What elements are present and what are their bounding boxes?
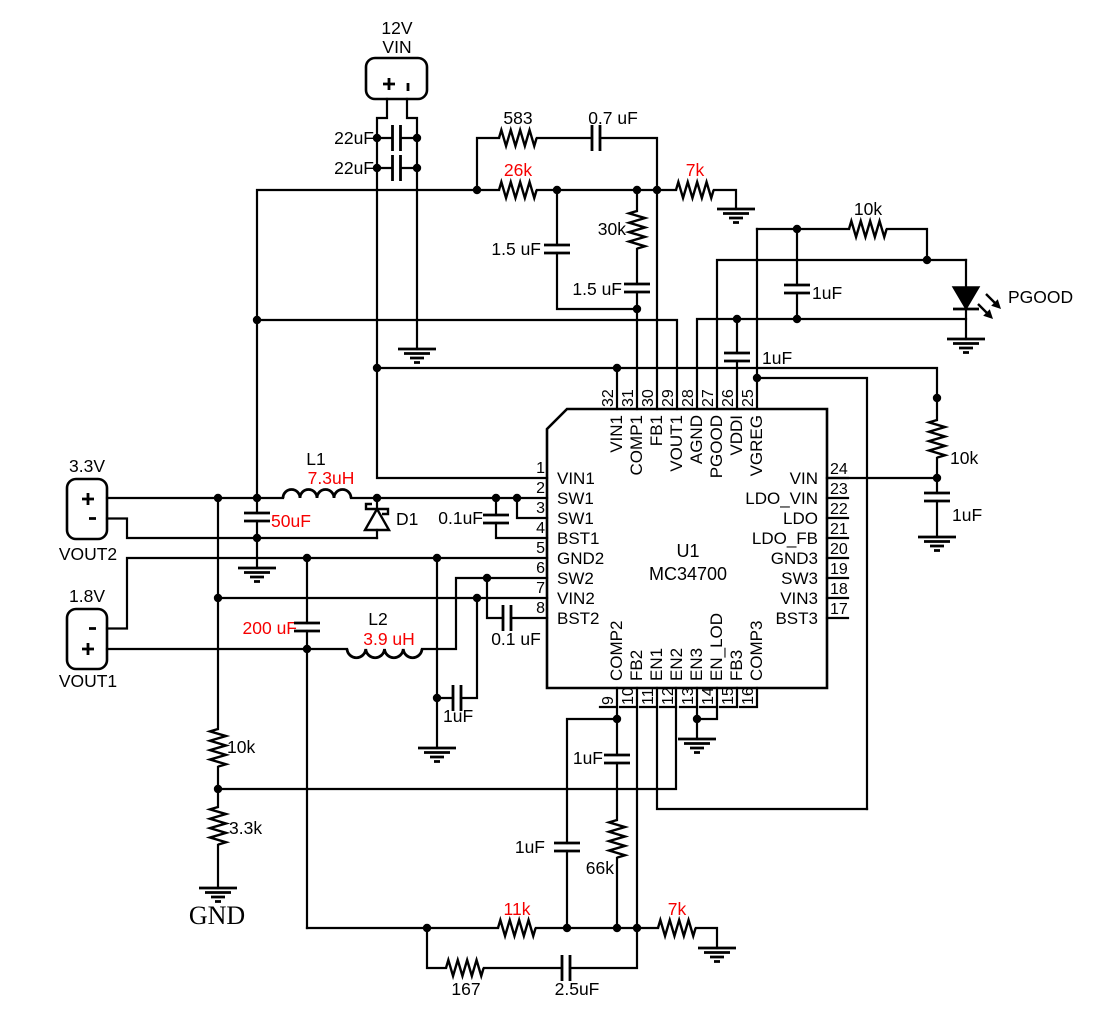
- svg-text:FB2: FB2: [627, 650, 646, 681]
- ground (EN3): [678, 739, 716, 753]
- svg-text:3.3k: 3.3k: [229, 818, 262, 838]
- svg-text:7.3uH: 7.3uH: [308, 468, 355, 488]
- svg-text:27: 27: [700, 389, 717, 407]
- svg-text:29: 29: [660, 389, 677, 407]
- svg-text:26: 26: [720, 389, 737, 407]
- svg-text:VIN: VIN: [790, 469, 818, 488]
- ground (7k top): [717, 209, 755, 223]
- svg-text:L2: L2: [368, 609, 387, 629]
- svg-text:LDO: LDO: [783, 509, 818, 528]
- svg-text:GND: GND: [189, 901, 245, 930]
- svg-text:24: 24: [830, 461, 848, 478]
- svg-text:11: 11: [640, 688, 657, 705]
- svg-text:18: 18: [830, 581, 848, 598]
- svg-text:U1: U1: [676, 541, 699, 561]
- svg-text:22uF: 22uF: [334, 158, 374, 178]
- wire 26k to FB1 node: [537, 189, 657, 191]
- svg-text:23: 23: [830, 481, 848, 498]
- ground (7k bottom): [698, 948, 736, 962]
- svg-text:7k: 7k: [668, 899, 687, 919]
- svg-text:26k: 26k: [504, 160, 532, 180]
- svg-text:VOUT1: VOUT1: [667, 415, 686, 472]
- ground (VIN 1uF): [918, 537, 956, 551]
- wire SW1 rail (VOUT2+): [107, 497, 547, 499]
- svg-text:1.5 uF: 1.5 uF: [572, 279, 622, 299]
- pin 23 number and stub: [827, 497, 848, 499]
- svg-text:PGOOD: PGOOD: [1008, 287, 1073, 307]
- svg-text:1.8V: 1.8V: [69, 586, 105, 606]
- wire VIN1 rail to pin 32 and 10k: [377, 368, 937, 398]
- svg-text:31: 31: [620, 389, 637, 407]
- svg-text:1uF: 1uF: [515, 837, 545, 857]
- svg-text:VIN2: VIN2: [557, 589, 595, 608]
- svg-text:EN1: EN1: [647, 648, 666, 681]
- svg-text:VOUT2: VOUT2: [59, 544, 117, 564]
- wire AGND pin 28 column: [697, 319, 966, 409]
- voltage source VOUT1 1.8V: [67, 609, 107, 669]
- svg-text:COMP3: COMP3: [747, 621, 766, 681]
- wire FB1 pin 30 column: [656, 190, 658, 409]
- svg-text:0.1 uF: 0.1 uF: [491, 629, 541, 649]
- svg-text:16: 16: [740, 687, 757, 705]
- svg-text:1.5 uF: 1.5 uF: [491, 239, 541, 259]
- svg-text:5: 5: [536, 540, 545, 557]
- svg-text:25: 25: [740, 389, 757, 407]
- svg-text:200 uF: 200 uF: [243, 618, 297, 638]
- svg-text:1uF: 1uF: [762, 348, 792, 368]
- svg-text:11k: 11k: [504, 899, 531, 919]
- wire PGOOD pin 27 column: [717, 260, 966, 409]
- svg-text:VIN: VIN: [382, 37, 411, 57]
- svg-text:12: 12: [660, 687, 677, 705]
- wire COMP2 pin 9: [567, 688, 617, 843]
- svg-text:MC34700: MC34700: [649, 564, 727, 584]
- svg-text:13: 13: [680, 687, 697, 705]
- svg-text:66k: 66k: [586, 858, 614, 878]
- wire VOUT1 feedback top rail: [257, 190, 677, 498]
- wire VOUT1+ / L2 rail: [107, 578, 547, 649]
- svg-text:VDDI: VDDI: [727, 415, 746, 456]
- svg-text:LDO_FB: LDO_FB: [752, 529, 818, 548]
- junction dots 22uF caps: [373, 134, 381, 142]
- svg-text:EN2: EN2: [667, 648, 686, 681]
- wire VOUT2- to D1 anode rail: [107, 519, 377, 539]
- svg-text:VGREG: VGREG: [747, 415, 766, 476]
- svg-text:L1: L1: [306, 449, 325, 469]
- svg-text:22: 22: [830, 501, 848, 518]
- svg-text:VIN1: VIN1: [607, 415, 626, 453]
- svg-text:SW2: SW2: [557, 569, 594, 588]
- svg-text:3.3V: 3.3V: [69, 456, 105, 476]
- pin 20 number and stub: [827, 557, 848, 559]
- wire EN3/EN_LOD to ground: [697, 688, 717, 739]
- svg-text:LDO_VIN: LDO_VIN: [745, 489, 818, 508]
- wire VIN2 rail: [218, 597, 547, 599]
- svg-text:SW1: SW1: [557, 509, 594, 528]
- svg-text:19: 19: [830, 561, 848, 578]
- svg-text:17: 17: [830, 601, 848, 618]
- op-amp / IC U1 MC34700 body: [547, 409, 827, 688]
- svg-text:14: 14: [700, 687, 717, 705]
- junction dots top feedback rail: [473, 186, 481, 194]
- svg-text:32: 32: [600, 389, 617, 407]
- svg-text:PGOOD: PGOOD: [707, 415, 726, 478]
- wire VOUT1- to GND2: [107, 558, 547, 629]
- ground (LED): [947, 339, 985, 353]
- pin 24 number and stub: [827, 477, 848, 479]
- svg-text:167: 167: [451, 979, 480, 999]
- LED PGOOD: [965, 260, 967, 339]
- svg-text:28: 28: [680, 389, 697, 407]
- svg-text:BST3: BST3: [775, 609, 818, 628]
- svg-text:GND2: GND2: [557, 549, 604, 568]
- svg-text:12V: 12V: [381, 18, 412, 38]
- svg-text:GND3: GND3: [771, 549, 818, 568]
- svg-text:VIN1: VIN1: [557, 469, 595, 488]
- pin 22 number and stub: [827, 517, 848, 519]
- svg-text:10k: 10k: [854, 199, 882, 219]
- svg-text:583: 583: [503, 108, 532, 128]
- svg-text:20: 20: [830, 541, 848, 558]
- svg-text:1uF: 1uF: [443, 706, 473, 726]
- svg-text:9: 9: [600, 696, 617, 705]
- svg-text:1uF: 1uF: [573, 748, 603, 768]
- voltage source VOUT2 3.3V: [67, 479, 107, 539]
- svg-text:7: 7: [536, 580, 545, 597]
- svg-text:21: 21: [830, 521, 848, 538]
- wire FB2 bottom rail: [307, 927, 658, 929]
- svg-text:0.7 uF: 0.7 uF: [588, 108, 638, 128]
- svg-text:BST1: BST1: [557, 529, 600, 548]
- svg-text:10k: 10k: [950, 448, 978, 468]
- wire VGREG pin 25 column: [756, 229, 758, 409]
- svg-text:2.5uF: 2.5uF: [555, 979, 600, 999]
- svg-text:EN3: EN3: [687, 648, 706, 681]
- svg-text:FB3: FB3: [727, 650, 746, 681]
- svg-text:3.9 uH: 3.9 uH: [363, 629, 415, 649]
- svg-text:VOUT1: VOUT1: [59, 671, 117, 691]
- wire EN1 pin 11 to VGREG riser: [657, 688, 867, 809]
- wire FB2 pin 10 column: [636, 688, 638, 928]
- svg-text:BST2: BST2: [557, 609, 600, 628]
- svg-text:10: 10: [620, 687, 637, 705]
- svg-text:VIN3: VIN3: [780, 589, 818, 608]
- ground (12V source): [398, 349, 436, 363]
- svg-text:COMP2: COMP2: [607, 621, 626, 681]
- svg-text:1: 1: [536, 460, 545, 477]
- svg-text:EN_LOD: EN_LOD: [707, 613, 726, 681]
- wire VIN pin 24: [827, 477, 937, 479]
- svg-text:2: 2: [536, 480, 545, 497]
- wire pin 32 stub: [616, 368, 618, 409]
- svg-text:7k: 7k: [686, 160, 705, 180]
- wire VIN+ lead: [377, 99, 547, 478]
- svg-text:4: 4: [536, 520, 545, 537]
- svg-text:10k: 10k: [227, 737, 255, 757]
- wire VIN- lead: [407, 99, 417, 349]
- svg-text:0.1uF: 0.1uF: [438, 508, 483, 528]
- svg-text:COMP1: COMP1: [627, 415, 646, 475]
- svg-text:AGND: AGND: [687, 415, 706, 464]
- pin 18 number and stub: [827, 597, 848, 599]
- svg-text:6: 6: [536, 560, 545, 577]
- ground GND (3.3k): [199, 888, 237, 902]
- svg-text:SW3: SW3: [781, 569, 818, 588]
- svg-text:1uF: 1uF: [812, 283, 842, 303]
- voltage source VIN 12V: [366, 58, 427, 99]
- LED light arrows: [986, 294, 997, 305]
- pin 21 number and stub: [827, 537, 848, 539]
- svg-text:30k: 30k: [598, 219, 626, 239]
- svg-text:1uF: 1uF: [952, 505, 982, 525]
- wire SW1 pin 3 jog: [517, 498, 547, 518]
- ground (VIN2 bypass): [418, 748, 456, 762]
- svg-text:30: 30: [640, 389, 657, 407]
- svg-text:SW1: SW1: [557, 489, 594, 508]
- svg-text:8: 8: [536, 600, 545, 617]
- wire EN2 to divider tap: [218, 688, 676, 789]
- svg-text:D1: D1: [396, 509, 418, 529]
- svg-text:50uF: 50uF: [271, 511, 311, 531]
- svg-text:FB1: FB1: [647, 415, 666, 446]
- svg-text:3: 3: [536, 500, 545, 517]
- svg-text:15: 15: [720, 687, 737, 705]
- wire VGREG to EN1 riser: [757, 378, 867, 809]
- ground (50uF): [238, 568, 276, 582]
- pin 19 number and stub: [827, 577, 848, 579]
- pin 17 number and stub: [827, 617, 848, 619]
- wire COMP1 pin 31 column: [636, 292, 638, 409]
- svg-text:22uF: 22uF: [334, 128, 374, 148]
